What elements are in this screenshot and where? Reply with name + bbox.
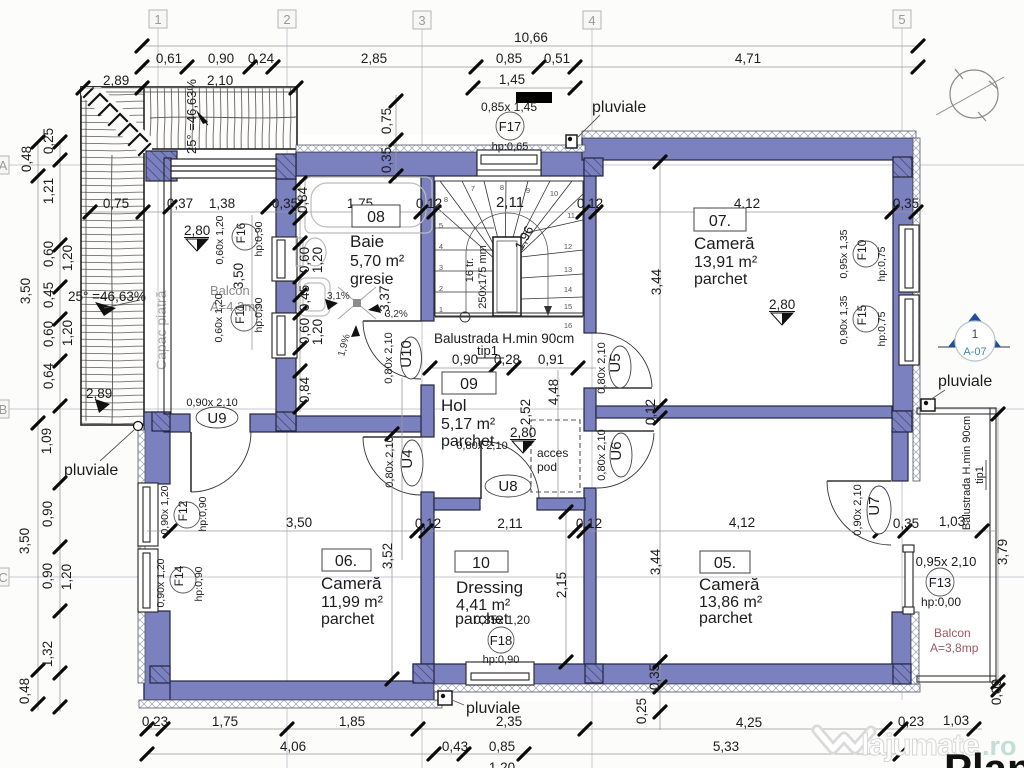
window F12 label (159, 485, 209, 534)
svg-text:13,91 m²: 13,91 m² (694, 254, 758, 271)
svg-text:0,85x 1,20: 0,85x 1,20 (474, 613, 530, 627)
window F18 label (474, 613, 530, 666)
svg-text:15: 15 (564, 302, 572, 311)
wall U8 left piece (434, 498, 480, 510)
window F13 label (916, 554, 977, 609)
svg-text:pluviale: pluviale (938, 373, 992, 390)
slope texts (327, 291, 408, 358)
svg-text:0,25: 0,25 (41, 128, 56, 154)
svg-text:Cameră: Cameră (699, 575, 760, 594)
svg-text:2: 2 (439, 284, 443, 293)
svg-text:pluviale: pluviale (466, 700, 520, 717)
svg-text:B: B (0, 402, 7, 417)
wall camera07/camera05 divider (596, 406, 892, 418)
svg-text:-3,37: -3,37 (377, 286, 392, 317)
sink (298, 278, 330, 316)
svg-text:0,43: 0,43 (442, 739, 468, 754)
window F11 label (213, 293, 265, 342)
wall baie/hol upper piece (421, 176, 434, 321)
svg-text:0,85: 0,85 (496, 51, 522, 66)
wall U8 right piece (537, 498, 585, 510)
svg-text:13,86 m²: 13,86 m² (699, 594, 763, 611)
svg-text:0,80x 2,10: 0,80x 2,10 (383, 332, 395, 383)
svg-text:F16: F16 (234, 222, 248, 243)
svg-text:0,12: 0,12 (643, 399, 658, 425)
svg-text:3,50: 3,50 (18, 278, 33, 304)
svg-text:U10: U10 (398, 340, 415, 368)
wall right exterior of camera 07 (893, 158, 913, 411)
svg-text:5,17 m²: 5,17 m² (441, 416, 496, 433)
slope arrows (325, 299, 381, 337)
svg-text:1,21: 1,21 (41, 178, 56, 204)
svg-text:0,84: 0,84 (295, 186, 310, 213)
svg-text:1,20: 1,20 (310, 319, 325, 345)
svg-text:0,90: 0,90 (452, 352, 478, 367)
svg-text:2,10: 2,10 (207, 73, 233, 88)
svg-text:16: 16 (564, 321, 572, 330)
svg-text:U5: U5 (607, 353, 624, 372)
svg-text:F10: F10 (855, 239, 869, 260)
balcony left rail (164, 158, 171, 414)
tread numbers (439, 183, 575, 330)
svg-text:250x175 mm: 250x175 mm (477, 245, 489, 309)
svg-text:0,48: 0,48 (19, 146, 34, 172)
wall balcon/baie upper piece (276, 179, 296, 238)
svg-text:2,11: 2,11 (497, 516, 522, 531)
svg-text:1,09: 1,09 (39, 428, 54, 454)
door U7 label (852, 484, 891, 535)
stairwell boundary (435, 181, 583, 316)
door U10 label (383, 332, 422, 383)
svg-text:1,75: 1,75 (212, 714, 238, 729)
svg-text:1: 1 (972, 327, 979, 341)
door U9 (191, 432, 251, 492)
acces pod (531, 420, 580, 492)
wall top of baie (left section) (296, 152, 477, 176)
pluviale pipe symbol left (circle) (134, 422, 143, 431)
svg-text:05.: 05. (714, 555, 736, 572)
svg-text:8: 8 (444, 195, 448, 204)
window F15 (899, 295, 919, 365)
svg-text:0,12: 0,12 (415, 516, 441, 531)
svg-text:parchet: parchet (699, 610, 753, 627)
svg-text:9: 9 (526, 186, 530, 195)
svg-text:3,44: 3,44 (649, 268, 664, 295)
svg-text:0,12: 0,12 (577, 196, 603, 211)
window F17 label (481, 100, 537, 153)
svg-text:14: 14 (564, 285, 572, 294)
svg-text:0,90x 1,35: 0,90x 1,35 (838, 295, 850, 344)
mid chain y531 texts (286, 514, 965, 531)
bathtub (305, 177, 432, 233)
svg-text:tip1: tip1 (974, 466, 986, 484)
svg-text:Dressing: Dressing (456, 578, 523, 597)
svg-text:7: 7 (471, 184, 475, 193)
fan treads (435, 181, 583, 268)
svg-text:25° =46,63%: 25° =46,63% (184, 79, 199, 154)
svg-text:0,60x 1,20: 0,60x 1,20 (214, 215, 226, 264)
wall balcon/baie lower piece (276, 358, 296, 414)
svg-text:09: 09 (460, 376, 478, 393)
wall camera06/dressing (421, 492, 434, 664)
svg-text:Balcon: Balcon (934, 626, 971, 640)
svg-text:2: 2 (283, 12, 290, 27)
svg-text:5,33: 5,33 (713, 739, 739, 754)
svg-text:U9: U9 (207, 410, 226, 427)
wall right of camera 05 lower (892, 612, 911, 684)
svg-text:0,37: 0,37 (167, 196, 193, 211)
svg-text:4,48: 4,48 (546, 379, 561, 405)
svg-text:0,61: 0,61 (156, 51, 182, 66)
svg-text:4,71: 4,71 (735, 51, 761, 66)
wall left exterior lower (144, 611, 170, 700)
left dim texts (rotated) (17, 128, 75, 704)
svg-text:A: A (0, 158, 8, 173)
svg-text:0,45: 0,45 (41, 282, 56, 308)
svg-text:2,80: 2,80 (184, 223, 210, 238)
room 08 Baie (350, 205, 405, 288)
svg-text:4: 4 (588, 13, 595, 28)
svg-text:pluviale: pluviale (592, 99, 646, 116)
svg-text:F11: F11 (233, 304, 247, 324)
building interior white (140, 135, 920, 701)
svg-text:0,09: 0,09 (989, 679, 1004, 705)
svg-text:1,20: 1,20 (489, 760, 515, 768)
svg-text:hp:0,90: hp:0,90 (483, 654, 520, 666)
svg-text:2,80: 2,80 (769, 297, 795, 312)
insulation strips (138, 131, 920, 708)
svg-text:3,52: 3,52 (380, 543, 395, 569)
svg-text:0,60: 0,60 (41, 241, 56, 267)
svg-text:0,75: 0,75 (379, 108, 394, 134)
svg-text:hp:0,90: hp:0,90 (253, 297, 265, 332)
svg-text:5: 5 (898, 12, 905, 27)
svg-text:1,85: 1,85 (339, 714, 365, 729)
window F11 (272, 313, 297, 358)
svg-text:0,90x 1,20: 0,90x 1,20 (159, 485, 171, 534)
svg-text:0,85: 0,85 (489, 739, 515, 754)
wall top of camera 07 (right section) (582, 138, 916, 160)
svg-text:1,20: 1,20 (60, 245, 75, 271)
pluviale pipe symbol top (566, 135, 577, 148)
door U5 (596, 333, 652, 388)
svg-text:U6: U6 (608, 441, 625, 460)
door U4 label (384, 436, 423, 487)
svg-text:2,15: 2,15 (554, 572, 569, 598)
wall baie/hol mid piece (421, 385, 434, 437)
svg-text:5: 5 (439, 221, 443, 230)
walk line (466, 213, 548, 313)
door U6 label (596, 429, 632, 480)
window F14 label (155, 558, 205, 607)
svg-text:1: 1 (154, 12, 161, 27)
svg-text:F14: F14 (172, 565, 186, 586)
svg-text:F15: F15 (855, 304, 869, 325)
door U7 (827, 481, 891, 545)
wall balcon/baie middle piece (276, 281, 296, 313)
inner row y212 texts (103, 194, 919, 211)
room 10 Dressing (455, 551, 523, 628)
svg-text:0,35: 0,35 (379, 147, 394, 173)
svg-text:Baie: Baie (350, 232, 384, 251)
wall bottom of baie (296, 416, 434, 432)
door U8 label (456, 440, 531, 497)
svg-text:pod: pod (537, 460, 557, 474)
svg-text:0,51: 0,51 (544, 51, 570, 66)
grid column lines 1-5 (157, 28, 159, 430)
baie vertical dim texts (295, 186, 392, 403)
hatched piers (146, 151, 912, 684)
shower slope cross (338, 287, 376, 319)
svg-text:1,45: 1,45 (499, 72, 525, 87)
right balcony interior (911, 408, 997, 683)
balcon vertical dim 3,50 (251, 215, 253, 350)
svg-text:4,06: 4,06 (280, 739, 306, 754)
svg-text:A=3,8mp: A=3,8mp (930, 641, 979, 655)
svg-text:25° =46,63%: 25° =46,63% (68, 289, 146, 304)
svg-text:1,20: 1,20 (59, 564, 74, 590)
svg-text:acces: acces (537, 446, 568, 460)
svg-text:F17: F17 (499, 119, 521, 134)
svg-text:11,99 m²: 11,99 m² (321, 594, 384, 611)
svg-text:0,80x 2,10: 0,80x 2,10 (596, 429, 608, 480)
svg-text:10,66: 10,66 (514, 30, 548, 45)
svg-text:0,95x 2,10: 0,95x 2,10 (916, 554, 977, 569)
svg-text:1,20: 1,20 (310, 247, 325, 273)
svg-text:0,48: 0,48 (17, 678, 32, 704)
svg-text:3,1%: 3,1% (327, 291, 350, 302)
svg-text:U7: U7 (866, 496, 883, 515)
lajumate.ro watermark logo (817, 730, 871, 749)
wall U9 right piece (250, 414, 296, 432)
svg-text:0,12: 0,12 (416, 196, 442, 211)
svg-text:0,60x 1,20: 0,60x 1,20 (213, 293, 225, 342)
room 09 Hol (441, 372, 496, 450)
window-door F13 right wall (903, 545, 914, 614)
svg-text:pluviale: pluviale (64, 462, 118, 479)
wall right of camera 05 upper (892, 430, 908, 481)
roof slope arrows (196, 110, 208, 124)
svg-text:8: 8 (500, 183, 504, 192)
svg-text:F12: F12 (176, 500, 190, 521)
svg-text:0,64: 0,64 (41, 362, 56, 389)
window F16 label (214, 215, 265, 264)
svg-text:Balustrada H.min 90cm: Balustrada H.min 90cm (961, 416, 973, 530)
window F12 (138, 483, 158, 546)
window F15 label (838, 295, 888, 346)
roof overhang hatched left band (81, 87, 144, 425)
svg-text:0,60: 0,60 (41, 321, 56, 347)
window F10 label (838, 229, 888, 281)
svg-text:3,50: 3,50 (286, 515, 312, 530)
svg-text:0,75: 0,75 (103, 196, 129, 211)
svg-text:0,80x 2,10: 0,80x 2,10 (384, 436, 396, 487)
window F16 (272, 237, 297, 281)
floor level marker hol (510, 425, 536, 453)
wall U9 (balcon-camera06) left piece (164, 414, 190, 432)
svg-text:2,89: 2,89 (86, 386, 112, 401)
wall bottom left section (144, 681, 434, 700)
svg-text:2,89: 2,89 (103, 73, 129, 88)
svg-text:12: 12 (564, 242, 572, 251)
svg-text:07.: 07. (709, 213, 731, 230)
floor level marker balcon (184, 223, 210, 251)
svg-text:Hol: Hol (441, 396, 467, 415)
svg-text:Capac piatră: Capac piatră (153, 290, 169, 370)
svg-text:Balustrada H.min 90cm: Balustrada H.min 90cm (434, 331, 574, 346)
svg-text:0,90: 0,90 (40, 563, 55, 589)
svg-text:Plan: Plan (944, 745, 1024, 768)
svg-text:0,90: 0,90 (40, 501, 55, 527)
room 07 Camera (694, 208, 758, 288)
svg-text:3: 3 (439, 263, 443, 272)
pluviale pipe symbol bottom (438, 691, 452, 705)
svg-text:0,45: 0,45 (297, 285, 312, 311)
svg-text:1,32: 1,32 (40, 641, 55, 667)
svg-text:C: C (0, 570, 8, 585)
window F18 bottom wall (466, 662, 534, 685)
svg-text:Cameră: Cameră (321, 574, 382, 593)
svg-text:hp:0,65: hp:0,65 (492, 141, 529, 153)
svg-text:4,25: 4,25 (736, 715, 762, 730)
door U9 label (186, 397, 238, 428)
svg-text:3,50: 3,50 (17, 528, 32, 554)
door U10 (363, 321, 421, 379)
svg-text:0,90x 1,20: 0,90x 1,20 (155, 558, 167, 607)
svg-text:5,70 m²: 5,70 m² (350, 253, 405, 270)
svg-text:hp:0,00: hp:0,00 (921, 595, 961, 609)
svg-text:0,25: 0,25 (634, 698, 649, 724)
bottom chain texts (142, 713, 969, 773)
svg-text:1,38: 1,38 (209, 196, 235, 211)
svg-text:gresie: gresie (350, 271, 394, 288)
svg-text:4: 4 (439, 242, 443, 251)
svg-text:2,11: 2,11 (496, 194, 524, 211)
top dim texts (156, 30, 761, 87)
svg-text:10: 10 (472, 555, 490, 572)
svg-text:3: 3 (418, 13, 425, 28)
svg-text:hp:0,90: hp:0,90 (253, 221, 265, 256)
svg-text:U4: U4 (399, 449, 416, 468)
wall left exterior mid (144, 412, 170, 484)
svg-text:0,12: 0,12 (576, 516, 602, 531)
right balcony rails (917, 408, 996, 682)
window F10 (899, 225, 919, 292)
stair central void (493, 237, 521, 316)
svg-text:parchet: parchet (321, 611, 375, 628)
svg-text:13: 13 (564, 265, 572, 274)
svg-text:08: 08 (367, 209, 385, 226)
svg-text:F18: F18 (490, 633, 512, 648)
pluviale labels (64, 99, 992, 717)
svg-text:3,79: 3,79 (995, 539, 1010, 565)
svg-text:hp:0,90: hp:0,90 (197, 496, 209, 531)
svg-text:A-07: A-07 (963, 346, 986, 358)
svg-text:0,23: 0,23 (142, 714, 168, 729)
balcony top rail (171, 159, 276, 178)
svg-text:0,28: 0,28 (494, 352, 520, 367)
wall bottom right section (413, 664, 911, 684)
balustrade line (435, 312, 583, 314)
svg-text:hp:0,75: hp:0,75 (876, 311, 888, 346)
svg-text:10: 10 (550, 189, 558, 198)
lintel black above F17 (516, 92, 552, 103)
svg-text:16 tr.: 16 tr. (464, 258, 476, 282)
svg-text:U8: U8 (498, 478, 517, 495)
pluviale pipe symbol right (921, 399, 935, 411)
svg-text:3,44: 3,44 (648, 548, 663, 575)
svg-text:hp:0,75: hp:0,75 (876, 246, 888, 281)
floor level marker camera07 (769, 297, 795, 325)
grid number boxes (0, 10, 911, 586)
svg-text:0,84: 0,84 (297, 376, 312, 403)
room 06 Camera (321, 549, 384, 628)
wall dressing/camera05 (584, 488, 596, 664)
door U6 (596, 431, 654, 488)
interior vertical dims (380, 268, 1010, 724)
door U5 label (596, 342, 631, 393)
svg-text:0,24: 0,24 (248, 51, 275, 66)
door U8 (481, 441, 539, 499)
svg-text:hp:0,90: hp:0,90 (193, 566, 205, 601)
treads right (521, 220, 583, 299)
window F17 top wall (477, 150, 541, 176)
window F14 (138, 549, 158, 612)
svg-text:Cameră: Cameră (694, 234, 755, 253)
svg-text:1,03: 1,03 (943, 713, 969, 728)
svg-text:2,80: 2,80 (510, 425, 536, 440)
svg-text:0,90: 0,90 (208, 51, 234, 66)
svg-text:0,35: 0,35 (893, 516, 919, 531)
svg-text:1,20: 1,20 (60, 320, 75, 346)
wall stairwell right upper (584, 160, 596, 333)
section marker A-07 (938, 313, 1010, 361)
svg-text:0,91: 0,91 (538, 352, 564, 367)
svg-text:0,95x 1,35: 0,95x 1,35 (838, 229, 850, 278)
hip ridge diagonal step band (81, 87, 152, 155)
door U4 (363, 437, 421, 495)
svg-text:06.: 06. (335, 553, 357, 570)
treads left (435, 228, 494, 313)
svg-text:0,80x 2,10: 0,80x 2,10 (456, 440, 507, 452)
room 05 Camera (699, 551, 763, 627)
svg-text:2,85: 2,85 (361, 51, 387, 66)
svg-text:4,12: 4,12 (729, 515, 755, 530)
svg-text:0,35: 0,35 (893, 196, 919, 211)
hol chain texts (452, 352, 564, 367)
svg-text:F13: F13 (929, 575, 951, 590)
wall stairwell right mid (584, 388, 596, 431)
toilet (296, 238, 303, 266)
compass / survey circle (936, 69, 1004, 121)
0,12 wall marks on vertical chain x660 (386, 156, 666, 685)
grid row lines A,B,C (8, 164, 1024, 166)
roof overhang hatched top band (81, 87, 297, 149)
svg-text:0,90x 2,10: 0,90x 2,10 (852, 484, 864, 535)
svg-text:parchet: parchet (694, 271, 748, 288)
